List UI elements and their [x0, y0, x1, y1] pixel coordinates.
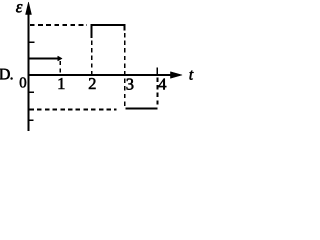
- step segment arrowhead: [58, 56, 62, 61]
- dashed guide below rise at t=2: [91, 41, 93, 78]
- step segment 0 to 1 at level +1: [28, 58, 59, 60]
- label t (x-axis): [190, 71, 194, 80]
- label 2: [89, 78, 96, 89]
- label epsilon (y-axis): [16, 4, 22, 12]
- label D. (answer choice): [0, 69, 12, 80]
- dashed fall guide at t=3: [124, 33, 126, 107]
- label 0 (origin): [20, 77, 26, 87]
- label 1: [59, 78, 65, 89]
- y-axis epsilon: [28, 6, 30, 131]
- tick +2 on y-axis: [28, 41, 35, 43]
- label 4: [159, 79, 167, 90]
- dashed drop guide at t=1: [59, 61, 61, 74]
- solid fall edge start at t=3: [124, 24, 126, 31]
- label 3: [127, 79, 134, 90]
- solid bottom segment 3 to 4 at level -2: [126, 107, 158, 109]
- tick -1 on y-axis: [28, 91, 34, 93]
- dashed top guide level +3 from axis to t=2: [30, 24, 87, 26]
- dashed bottom guide level -2 from axis to t=3: [30, 108, 117, 110]
- x-axis arrowhead: [171, 72, 183, 78]
- x-axis t: [28, 74, 177, 76]
- tick above axis at t=4: [156, 68, 158, 75]
- solid rise edge at t=2: [91, 24, 93, 38]
- tick -2 on y-axis: [28, 119, 34, 121]
- solid top segment 2 to 3 at level +3: [91, 24, 126, 26]
- y-axis arrowhead: [26, 2, 32, 14]
- dashed rise guide at t=4: [157, 78, 159, 107]
